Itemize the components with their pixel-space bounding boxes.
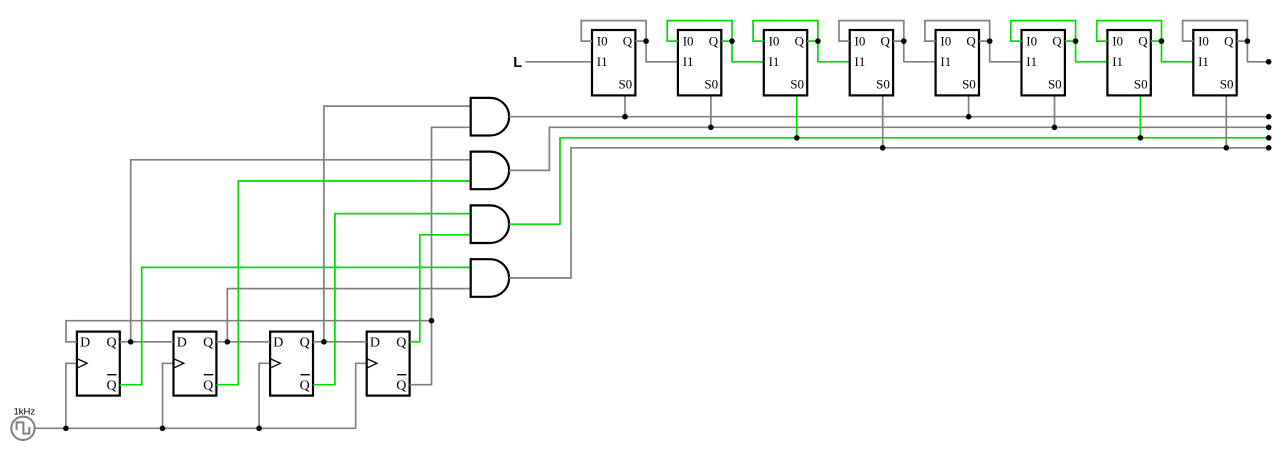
- svg-text:I1: I1: [1198, 54, 1209, 69]
- svg-text:D: D: [370, 336, 380, 351]
- junction mux M5 Q node: [987, 38, 993, 44]
- svg-text:1kHz: 1kHz: [14, 407, 36, 418]
- junction mux M1 Q node: [643, 38, 649, 44]
- wire mux M4 Q to mux M5 I1: [904, 41, 936, 62]
- junction mux M7 Q node: [1159, 38, 1165, 44]
- wire mux M2 S0 select stub to bus row 2: [710, 95, 712, 127]
- wire mux M3 Q to mux M4 I1: [818, 41, 850, 62]
- svg-text:I1: I1: [683, 54, 694, 69]
- wire FF3.Q to FF4.D and riser to AND gate A1 input: [313, 106, 471, 342]
- svg-text:Q: Q: [106, 336, 116, 351]
- svg-text:I1: I1: [855, 54, 866, 69]
- svg-text:Q: Q: [1052, 33, 1062, 48]
- junction mux M3 Q node: [815, 38, 821, 44]
- junction FF3.Q: [321, 339, 327, 345]
- svg-text:Q: Q: [966, 33, 976, 48]
- wire mux M5 Q feedback loop to I0: [925, 21, 990, 41]
- wire mux M1 Q to mux M2 I1: [646, 41, 678, 62]
- junction clock rail / FF2 clock: [160, 426, 166, 432]
- svg-text:S0: S0: [1220, 77, 1234, 92]
- svg-text:I0: I0: [855, 33, 866, 48]
- wire FF4.Q to AND gate A3 input (high): [410, 235, 471, 342]
- svg-text:I1: I1: [769, 54, 780, 69]
- and gate A4: [471, 259, 509, 297]
- svg-text:Q: Q: [709, 33, 719, 48]
- multiplexer M2: [678, 30, 721, 95]
- junction FF4.Qbar feedback: [429, 318, 435, 324]
- wire FF2.Qbar to AND gate A2 input (high): [216, 181, 470, 385]
- wire FF4.Qbar to AND gate A1 input and feedback to FF1.D: [66, 127, 471, 384]
- svg-text:D: D: [177, 336, 187, 351]
- svg-text:S0: S0: [1134, 77, 1148, 92]
- junction FF1.Q: [128, 339, 134, 345]
- wire FF2.Q to FF3.D and riser to AND gate A4 input: [216, 289, 470, 342]
- wire mux M6 S0 select stub to bus row 2: [1054, 95, 1056, 127]
- junction mux M2 Q node: [729, 38, 735, 44]
- wire mux M5 Q to mux M6 I1: [990, 41, 1022, 62]
- wire FF1.Qbar to AND gate A4 input (high): [120, 267, 471, 384]
- svg-text:Q: Q: [623, 33, 633, 48]
- wire FF1.Q to FF2.D and riser to AND gate A2 input: [120, 160, 471, 342]
- svg-text:S0: S0: [1048, 77, 1062, 92]
- svg-text:Q: Q: [881, 33, 891, 48]
- and gate A2: [471, 152, 509, 190]
- junction select bus row 2 right terminal: [1266, 125, 1272, 131]
- junction mux M4 Q node: [901, 38, 907, 44]
- svg-text:I1: I1: [597, 54, 608, 69]
- multiplexer M1: [592, 30, 635, 95]
- svg-text:Q: Q: [1138, 33, 1148, 48]
- multiplexer M5: [936, 30, 979, 95]
- wire mux M5 S0 select stub to bus row 1: [968, 95, 970, 116]
- multiplexer M7: [1107, 30, 1150, 95]
- wire FF3.Qbar to AND gate A3 input (high): [313, 214, 471, 385]
- wire mux M1 S0 select stub to bus row 1: [624, 95, 626, 116]
- wire mux M8 S0 select stub to bus row 4: [1225, 95, 1227, 147]
- svg-text:I1: I1: [940, 54, 951, 69]
- wire mux M4 Q feedback loop to I0: [839, 21, 904, 41]
- and gate A1: [471, 98, 509, 136]
- svg-text:Q: Q: [396, 336, 406, 351]
- wire mux M7 Q feedback loop to I0: [1097, 21, 1162, 41]
- svg-text:I1: I1: [1112, 54, 1123, 69]
- wire mux M6 Q to mux M7 I1: [1076, 41, 1108, 62]
- multiplexer M4: [850, 30, 893, 95]
- junction select bus row 3 right terminal: [1266, 135, 1272, 141]
- multiplexer M3: [764, 30, 807, 95]
- svg-text:I0: I0: [683, 33, 694, 48]
- wire clock rail from 1kHz source to flip-flop clock pins: [35, 363, 367, 428]
- wire AND A2 output to select line bus row 2: [509, 127, 1269, 170]
- d flip-flop FF1: [77, 332, 120, 396]
- svg-text:Q: Q: [300, 379, 310, 394]
- junction clock rail / FF3 clock: [256, 426, 262, 432]
- d flip-flop FF4: [367, 332, 410, 396]
- junction select bus row 4 right terminal: [1266, 145, 1272, 151]
- junction mux M6 Q node: [1073, 38, 1079, 44]
- svg-text:I1: I1: [1026, 54, 1037, 69]
- wire L input to mux M1 I1: [526, 61, 593, 63]
- svg-text:D: D: [273, 336, 283, 351]
- wire mux M8 Q feedback loop to I0: [1183, 21, 1248, 41]
- junction clock rail / FF1 clock: [63, 426, 69, 432]
- wire AND A1 output / select line S0 bus row 1: [509, 116, 1269, 118]
- and gate A3: [471, 205, 509, 243]
- wire mux M3 S0 select stub to bus row 3: [796, 95, 798, 137]
- junction serial output terminal: [1266, 59, 1272, 65]
- wire AND A3 output to select line bus row 3 (high): [509, 138, 1269, 224]
- wire mux M7 Q to mux M8 I1: [1162, 41, 1194, 62]
- svg-text:D: D: [80, 336, 90, 351]
- svg-text:S0: S0: [876, 77, 890, 92]
- junction mux M8 Q node: [1245, 38, 1251, 44]
- svg-text:Q: Q: [106, 379, 116, 394]
- svg-text:I0: I0: [1112, 33, 1123, 48]
- svg-text:I0: I0: [940, 33, 951, 48]
- svg-text:Q: Q: [203, 336, 213, 351]
- multiplexer M6: [1022, 30, 1065, 95]
- wire mux M7 S0 select stub to bus row 3: [1139, 95, 1141, 137]
- svg-text:I0: I0: [597, 33, 608, 48]
- svg-text:I0: I0: [1026, 33, 1037, 48]
- wire mux M1 Q feedback loop to I0: [581, 21, 646, 41]
- svg-text:Q: Q: [300, 336, 310, 351]
- wire mux M2 Q feedback loop to I0: [667, 21, 732, 41]
- wire mux M4 S0 select stub to bus row 4: [882, 95, 884, 147]
- junction select bus row 1 right terminal: [1266, 114, 1272, 120]
- d flip-flop FF2: [174, 332, 217, 396]
- svg-text:S0: S0: [962, 77, 976, 92]
- clock source CLK 1kHz: [11, 407, 35, 440]
- svg-text:I0: I0: [1198, 33, 1209, 48]
- svg-text:Q: Q: [396, 379, 406, 394]
- svg-text:S0: S0: [618, 77, 632, 92]
- svg-text:Q: Q: [795, 33, 805, 48]
- wire mux M3 Q feedback loop to I0: [753, 21, 818, 41]
- svg-text:Q: Q: [203, 379, 213, 394]
- svg-text:Q: Q: [1224, 33, 1234, 48]
- svg-text:I0: I0: [769, 33, 780, 48]
- wire mux M8 Q to serial output: [1247, 41, 1268, 62]
- svg-text:S0: S0: [704, 77, 718, 92]
- multiplexer M8: [1193, 30, 1236, 95]
- wire AND A4 output to select line bus row 4: [509, 148, 1269, 278]
- wire mux M2 Q to mux M3 I1: [732, 41, 764, 62]
- svg-text:S0: S0: [790, 77, 804, 92]
- junction FF2.Q: [225, 339, 231, 345]
- svg-text:L: L: [513, 55, 522, 71]
- wire mux M6 Q feedback loop to I0: [1011, 21, 1076, 41]
- d flip-flop FF3: [270, 332, 313, 396]
